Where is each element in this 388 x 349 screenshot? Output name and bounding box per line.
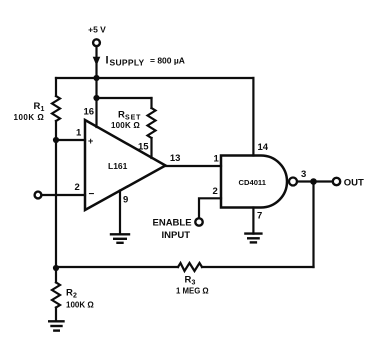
inversion bubble bbox=[289, 178, 297, 186]
+5V terminal bbox=[93, 39, 100, 46]
op-amp U1 L161 bbox=[85, 120, 166, 210]
wire junction down to bottom node bbox=[55, 140, 57, 268]
resistor RSET bbox=[148, 108, 156, 138]
resistor R2 bbox=[52, 282, 60, 307]
wire R1 to junction bbox=[55, 121, 57, 140]
svg-text:R: R bbox=[34, 101, 41, 112]
svg-text:14: 14 bbox=[258, 142, 269, 153]
junction RSET branch bbox=[93, 95, 99, 101]
current arrow bbox=[93, 57, 101, 66]
svg-text:R: R bbox=[118, 110, 125, 121]
ground op-amp bbox=[111, 234, 129, 243]
svg-text:13: 13 bbox=[170, 153, 181, 164]
pin 14 wire bbox=[252, 78, 254, 156]
R3 labels bbox=[176, 275, 209, 296]
svg-text:3: 3 bbox=[301, 169, 306, 180]
ENABLE INPUT labels bbox=[153, 218, 192, 242]
bottom junction bbox=[53, 265, 59, 271]
wire input to pin2 bbox=[41, 194, 85, 196]
svg-text:1: 1 bbox=[214, 154, 220, 165]
wire to R2 bbox=[55, 268, 57, 282]
RSET labels bbox=[111, 110, 141, 131]
wire R2 to ground bbox=[55, 308, 57, 322]
resistor R1 bbox=[52, 96, 60, 121]
svg-text:2: 2 bbox=[213, 186, 218, 197]
svg-text:−: − bbox=[89, 189, 95, 200]
svg-text:= 800 µA: = 800 µA bbox=[150, 56, 185, 66]
svg-text:1 MEG Ω: 1 MEG Ω bbox=[176, 287, 209, 296]
feedback wire down bbox=[312, 182, 314, 268]
pin 2 wire bbox=[199, 198, 221, 218]
svg-text:SUPPLY: SUPPLY bbox=[110, 58, 145, 68]
svg-text:R: R bbox=[185, 275, 192, 286]
wire +5V to rail bbox=[95, 46, 97, 78]
wire junction to op-amp pin1 bbox=[56, 139, 85, 141]
svg-text:ENABLE: ENABLE bbox=[153, 218, 192, 229]
wire rail down to R1 bbox=[55, 78, 57, 96]
svg-text:2: 2 bbox=[73, 293, 77, 300]
label ISUPPLY = 800 uA bbox=[106, 55, 185, 68]
svg-text:1: 1 bbox=[76, 128, 82, 139]
pin 7 wire bbox=[252, 208, 254, 234]
wire pin13 to gate pin1 bbox=[166, 165, 222, 167]
svg-text:L161: L161 bbox=[108, 161, 128, 171]
NAND gate U2 CD4011 bbox=[221, 156, 287, 208]
pin 9 wire bbox=[119, 191, 121, 235]
feedback rail bbox=[202, 266, 314, 268]
R2 labels bbox=[66, 288, 94, 310]
pin 16 wire bbox=[95, 78, 97, 127]
svg-text:100K Ω: 100K Ω bbox=[111, 121, 140, 130]
junction output bbox=[310, 178, 317, 185]
svg-text:+5 V: +5 V bbox=[88, 25, 106, 35]
wire to RSET bbox=[97, 97, 152, 99]
svg-text:+: + bbox=[88, 136, 93, 146]
svg-text:7: 7 bbox=[257, 211, 262, 222]
svg-text:1: 1 bbox=[41, 106, 45, 113]
svg-text:2: 2 bbox=[75, 182, 80, 193]
supply rail bbox=[56, 77, 253, 79]
enable terminal bbox=[195, 218, 202, 225]
junction node plus-input bbox=[53, 137, 59, 143]
ground R2 bbox=[49, 321, 63, 330]
svg-text:INPUT: INPUT bbox=[162, 230, 191, 241]
OUT terminal bbox=[333, 178, 340, 185]
ground gate bbox=[245, 234, 261, 243]
R1 labels bbox=[14, 101, 45, 122]
input terminal bbox=[35, 192, 42, 199]
wire RSET to pin15 bbox=[150, 138, 152, 158]
wire bubble to OUT bbox=[297, 180, 333, 182]
svg-text:9: 9 bbox=[123, 195, 128, 206]
junction supply/rail bbox=[93, 75, 99, 81]
svg-text:15: 15 bbox=[138, 142, 149, 153]
svg-text:I: I bbox=[106, 55, 109, 67]
svg-text:3: 3 bbox=[192, 280, 196, 287]
svg-text:100K Ω: 100K Ω bbox=[66, 301, 94, 310]
resistor R3 bbox=[178, 263, 202, 271]
svg-text:100K Ω: 100K Ω bbox=[14, 113, 45, 122]
svg-text:16: 16 bbox=[84, 107, 95, 118]
svg-text:OUT: OUT bbox=[344, 178, 364, 189]
svg-text:R: R bbox=[66, 288, 73, 299]
svg-text:CD4011: CD4011 bbox=[239, 178, 267, 187]
